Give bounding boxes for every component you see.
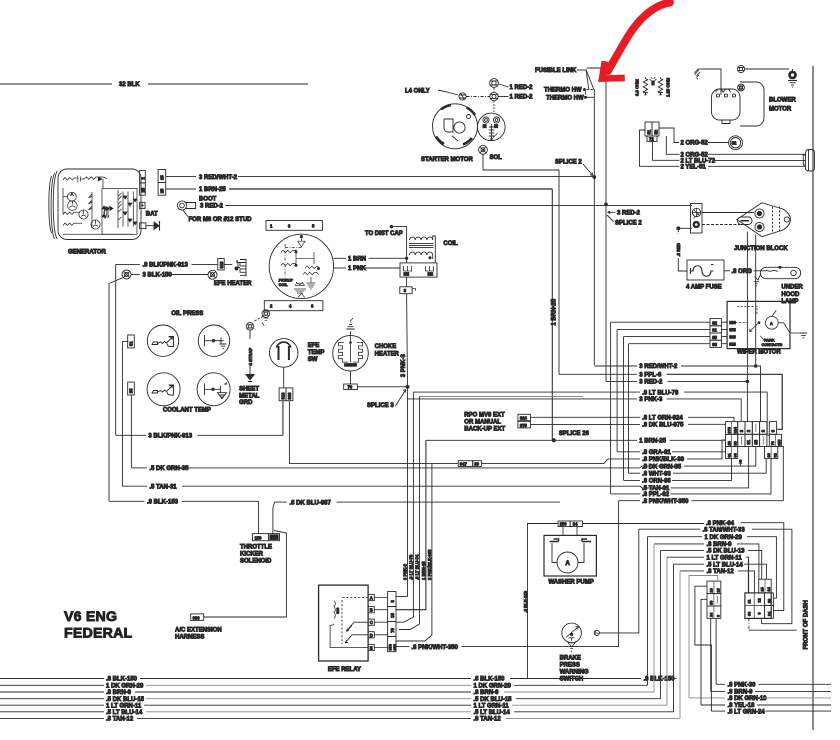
svg-text:3 RED-2: 3 RED-2 — [639, 380, 663, 386]
ground (wiper) — [800, 333, 807, 338]
svg-text:BOOT: BOOT — [199, 197, 217, 203]
wire 3 PNK-3 into relay — [396, 596, 408, 598]
svg-text:GRD: GRD — [239, 400, 253, 406]
wire 3 BLK-150 — [131, 273, 208, 279]
wire 3 RED-2 (mid) — [606, 380, 749, 386]
wire .5 TAN-31 (mid) — [640, 447, 749, 493]
generator internals — [63, 176, 137, 235]
svg-text:METAL: METAL — [239, 393, 260, 399]
node splice 2 dot — [593, 176, 596, 179]
svg-text:.8 ORN-96: .8 ORN-96 — [642, 479, 671, 485]
blower resistor 3.0 OHM — [635, 78, 648, 97]
wire .5 DK GRN-35 — [131, 466, 640, 472]
svg-text:96: 96 — [733, 453, 737, 457]
wire GRA-91 vertical — [616, 329, 618, 451]
svg-text:COIL: COIL — [279, 283, 289, 287]
bottom bus wire 1 LT GRN-11 — [0, 557, 667, 709]
svg-text:.8 LT BLU-78: .8 LT BLU-78 — [408, 554, 413, 580]
svg-text:COOLANT TEMP: COOLANT TEMP — [163, 408, 211, 414]
svg-text:HOOD: HOOD — [781, 292, 800, 298]
wiper connector 93 — [629, 340, 728, 347]
wire dash from nut to SOL — [493, 101, 495, 112]
svg-text:FUSIBLE LINK: FUSIBLE LINK — [535, 68, 577, 74]
wire .8 ORN-96 (mid) — [624, 459, 732, 485]
wire bolt1 to bolt2 — [745, 68, 789, 70]
svg-text:FEDERAL: FEDERAL — [64, 626, 133, 642]
connector grid A — [707, 581, 721, 618]
wire .8 PPL-92 (mid) — [611, 459, 771, 499]
svg-text:RPO MV9 EXT: RPO MV9 EXT — [464, 413, 505, 419]
connector circle 52 — [729, 136, 743, 150]
wire 1 BRN-25 into relay — [396, 440, 426, 609]
connector 76 — [344, 371, 408, 390]
svg-text:.8 PNK/WHT-350: .8 PNK/WHT-350 — [642, 499, 689, 505]
wire relay pins to connector — [374, 598, 387, 648]
wire .8 PNK/WHT-350 (relay) — [396, 501, 619, 651]
bottom bus wire .5 DK BLU-15 — [0, 550, 661, 703]
brake switch — [562, 623, 582, 652]
svg-text:STARTER MOTOR: STARTER MOTOR — [421, 157, 473, 163]
svg-text:95: 95 — [712, 335, 717, 340]
svg-text:.8 BLK/PNK-913: .8 BLK/PNK-913 — [143, 263, 189, 269]
svg-text:.5 LT BLU-14: .5 LT BLU-14 — [474, 710, 511, 716]
label 3 RED-2 — [200, 204, 692, 210]
svg-text:SHEET: SHEET — [239, 387, 259, 393]
wire .8 PNK-94 — [583, 521, 784, 611]
blower resistor 1.25 OHM — [658, 77, 670, 97]
svg-text:2: 2 — [761, 429, 766, 432]
ignition coil windings — [409, 236, 435, 263]
svg-text:.8 PNK-30: .8 PNK-30 — [728, 683, 757, 689]
wire fusible link feed down (3 RED-2 vertical) — [605, 68, 607, 381]
connector 1 3 5 — [266, 221, 323, 231]
wire .8 RED tap — [678, 227, 692, 229]
svg-text:92: 92 — [712, 320, 717, 325]
brake switch terminal — [594, 529, 639, 635]
svg-text:11: 11 — [748, 599, 752, 603]
svg-text:3 RED-2: 3 RED-2 — [617, 210, 641, 216]
generator body — [49, 169, 141, 240]
svg-text:903: 903 — [287, 392, 292, 400]
svg-text:.8 PNK/BLK-39: .8 PNK/BLK-39 — [642, 457, 685, 463]
svg-text:.8 DK BLU-987: .8 DK BLU-987 — [290, 500, 332, 506]
svg-text:D: D — [370, 633, 373, 638]
svg-text:3 PNK-3: 3 PNK-3 — [639, 397, 663, 403]
wire dashed bolt-bolt (4 strap) — [254, 317, 263, 322]
wire .8 PNK/WHT-350 (mid) — [619, 447, 784, 505]
wire .8 BLK-153 — [109, 500, 259, 534]
svg-text:B: B — [370, 608, 373, 613]
starter motor — [433, 104, 478, 149]
junction block kite — [737, 203, 791, 237]
svg-text:.5 TAN-31: .5 TAN-31 — [149, 484, 177, 490]
bolt blower 1 — [737, 65, 744, 72]
svg-text:35: 35 — [129, 388, 134, 393]
wire .5 LT GRN-24 — [695, 586, 831, 715]
svg-text:SWITCH: SWITCH — [560, 677, 584, 683]
under hood lamp — [754, 266, 801, 286]
svg-text:BACK-UP EXT: BACK-UP EXT — [464, 427, 505, 433]
bottom bus wire .5 LT BLU-14 — [0, 564, 674, 716]
svg-text:91: 91 — [727, 453, 731, 457]
relay pin D — [368, 632, 374, 638]
svg-text:.8 TAN/WHT-33: .8 TAN/WHT-33 — [703, 527, 746, 533]
svg-text:OR MANUAL: OR MANUAL — [464, 420, 501, 426]
wire 913 down — [282, 401, 284, 436]
wire .8 PNK-30 — [716, 683, 831, 689]
svg-text:6: 6 — [311, 304, 314, 309]
svg-text:WARNING: WARNING — [560, 670, 589, 676]
svg-text:3 PPL-6: 3 PPL-6 — [639, 373, 662, 379]
EFE relay box — [319, 585, 369, 661]
solenoid SOL — [478, 113, 506, 141]
svg-text:A/C EXTENSION: A/C EXTENSION — [175, 627, 222, 633]
label BLOWER MOTOR — [769, 98, 796, 113]
svg-text:3 BLK/PNK-913: 3 BLK/PNK-913 — [148, 434, 192, 440]
svg-text:947: 947 — [460, 462, 468, 467]
thermal limiter symbol — [650, 77, 657, 85]
wire .8 GRA-91 (mid) — [617, 450, 725, 456]
svg-text:HEATER: HEATER — [375, 351, 400, 357]
label SHEET METAL GRD — [239, 387, 260, 407]
wire ground to motor — [701, 69, 721, 95]
wire 1 BRN-25 — [166, 187, 553, 193]
svg-text:76: 76 — [348, 385, 353, 390]
connector 2 4 6 — [264, 301, 323, 311]
wire plate to kite upper — [702, 212, 754, 214]
svg-text:.8 BRN-9: .8 BRN-9 — [106, 690, 132, 696]
svg-text:4 AMP FUSE: 4 AMP FUSE — [686, 285, 722, 291]
svg-text:1 BRN-25: 1 BRN-25 — [199, 187, 226, 193]
svg-text:.8 TAN-12: .8 TAN-12 — [707, 569, 735, 575]
wiper connector 91 — [617, 326, 727, 333]
svg-text:OIL PRESS: OIL PRESS — [171, 311, 203, 317]
ground (blower circuit) — [694, 69, 701, 79]
annotation red arrow — [602, 3, 670, 79]
svg-text:BAT: BAT — [146, 211, 158, 217]
svg-text:WASHER PUMP: WASHER PUMP — [548, 579, 593, 585]
svg-text:.8 ORG: .8 ORG — [732, 269, 753, 275]
svg-text:THERMO HW: THERMO HW — [546, 96, 584, 102]
connector 51/52 — [645, 122, 659, 136]
connector 3 (coil feed) — [400, 277, 416, 294]
wire SOL to PPL vertical — [483, 154, 559, 374]
wire BLK-153 vertical left — [109, 278, 123, 502]
wire .8 LT BLU-78 into relay — [396, 392, 413, 622]
svg-text:24: 24 — [710, 612, 714, 617]
svg-text:3: 3 — [739, 429, 744, 432]
svg-text:.8 TAN-12: .8 TAN-12 — [106, 717, 134, 723]
wire ORN-96 vertical — [623, 337, 625, 481]
EFE temp switch — [269, 339, 298, 368]
svg-text:150: 150 — [255, 536, 263, 541]
svg-text:1 DK GRN-29: 1 DK GRN-29 — [106, 684, 144, 690]
wires below grid A — [711, 618, 716, 691]
wire .8 YEL-18 — [701, 599, 831, 709]
bulkhead connector row2 — [726, 434, 782, 446]
svg-text:.5 DK BLU-15: .5 DK BLU-15 — [474, 697, 513, 703]
bottom bus wire .8 BLK-150 — [0, 677, 677, 683]
svg-text:91: 91 — [712, 328, 717, 333]
blower motor bracket — [740, 82, 764, 126]
svg-text:3: 3 — [390, 600, 395, 603]
svg-text:1.25 OHM: 1.25 OHM — [666, 77, 671, 97]
svg-text:1 BRN: 1 BRN — [348, 257, 366, 263]
svg-text:1 BRN-25: 1 BRN-25 — [639, 439, 666, 445]
label THERMO HW (2) — [546, 91, 594, 102]
blower motor housing — [712, 89, 741, 124]
svg-text:.8 GRA-91: .8 GRA-91 — [642, 450, 671, 456]
svg-text:.5 LT BLU-14: .5 LT BLU-14 — [106, 710, 143, 716]
wire .5 TAN-31 — [122, 484, 640, 490]
svg-text:.8 YEL-18: .8 YEL-18 — [728, 703, 756, 709]
svg-text:32 BLK: 32 BLK — [119, 82, 140, 88]
wire 3 PNK/BLK-903 into relay — [396, 530, 432, 641]
svg-text:PARK: PARK — [764, 338, 775, 342]
svg-text:.5 LT BLU-14: .5 LT BLU-14 — [707, 562, 744, 568]
label V6 ENG FEDERAL — [64, 609, 133, 642]
wire dashed to second nut — [467, 96, 490, 98]
relay pin C — [368, 619, 374, 625]
wiper motor box — [727, 301, 800, 348]
front of dash line — [812, 66, 814, 730]
wire .8 ORG — [724, 269, 762, 275]
svg-text:93: 93 — [712, 342, 717, 347]
svg-text:EFE: EFE — [308, 343, 320, 349]
generator BAT tab — [140, 202, 158, 217]
wire 1 BRN-25 vertical — [552, 189, 558, 440]
wire 1 BRN — [334, 233, 408, 263]
wire 1 LT GRN-11 — [667, 555, 749, 593]
svg-text:TO DIST CAP: TO DIST CAP — [365, 231, 403, 237]
svg-text:.8 PNK/WHT-350: .8 PNK/WHT-350 — [412, 645, 459, 651]
svg-text:1 BRN-25: 1 BRN-25 — [552, 298, 558, 325]
connector grid B main — [745, 593, 773, 619]
connector 150/94 washer — [558, 521, 582, 536]
svg-text:.8 BLK-150: .8 BLK-150 — [106, 677, 138, 683]
label 3 RED-2 (splice2) — [608, 210, 641, 216]
svg-text:51: 51 — [647, 129, 652, 134]
svg-text:33: 33 — [748, 612, 752, 616]
svg-text:39: 39 — [474, 462, 479, 467]
svg-text:KICKER: KICKER — [240, 552, 264, 558]
terminal SOL bottom — [479, 145, 488, 154]
distributor (HEI) — [269, 234, 333, 298]
svg-text:.8 BRN-9: .8 BRN-9 — [728, 690, 754, 696]
svg-text:.8 BRN-9: .8 BRN-9 — [707, 542, 733, 548]
gauge coolant gauge — [197, 373, 230, 406]
svg-text:975: 975 — [520, 423, 528, 428]
svg-text:EFE HEATER: EFE HEATER — [214, 281, 252, 287]
svg-text:.8 WHT-93: .8 WHT-93 — [642, 471, 671, 477]
label RPO MV9 EXT OR MANUAL BACK-UP EXT — [464, 413, 505, 433]
svg-text:350: 350 — [777, 439, 781, 445]
label 1 RED-2 (lower) — [498, 94, 533, 100]
svg-text:19: 19 — [716, 588, 720, 592]
label SPLICE 3 — [367, 390, 406, 410]
wire .5 DK BLU-13 — [661, 549, 762, 580]
svg-text:3: 3 — [404, 288, 407, 293]
harness connector 25/25 — [158, 170, 166, 196]
connector 986 A/C extension — [191, 531, 287, 621]
svg-text:.8 TAN-12: .8 TAN-12 — [474, 717, 502, 723]
wire .8 PNK/BLK-39 — [481, 440, 725, 463]
wire 3 RED/WHT-2 (mid) — [594, 364, 760, 421]
svg-text:2 ORG-52: 2 ORG-52 — [681, 152, 709, 158]
wire 3 PNK-3 (mid) — [408, 397, 742, 422]
wire 35 down — [130, 395, 132, 468]
svg-text:SOL: SOL — [490, 155, 503, 161]
svg-text:L4 ONLY: L4 ONLY — [405, 89, 430, 95]
label 1 RED-2 (upper) — [499, 84, 533, 91]
svg-text:FRONT OF DASH: FRONT OF DASH — [804, 600, 810, 649]
wire .8 WHT-93 (mid) — [629, 459, 767, 478]
wire .5 LT BLU-14 — [674, 562, 767, 579]
gauge coolant sender — [147, 373, 180, 406]
svg-text:31: 31 — [129, 341, 134, 346]
generator connector tab 25 — [140, 183, 146, 195]
svg-text:975: 975 — [727, 427, 731, 433]
svg-text:3: 3 — [288, 223, 291, 228]
svg-text:THROTTLE: THROTTLE — [240, 545, 272, 551]
svg-text:HARNESS: HARNESS — [175, 635, 204, 641]
svg-text:2 ORG-52: 2 ORG-52 — [681, 141, 709, 147]
bulkhead connector row1 — [726, 422, 777, 435]
svg-text:WIPER MOTOR: WIPER MOTOR — [737, 350, 781, 356]
bolt blower 2 with ground — [788, 69, 797, 87]
label FUSIBLE LINK — [535, 68, 586, 74]
connector 975 — [518, 421, 531, 428]
svg-text:16: 16 — [710, 588, 714, 592]
svg-text:78: 78 — [390, 627, 395, 632]
svg-text:.8 BLK-150: .8 BLK-150 — [644, 677, 676, 683]
svg-text:3 PNK-3: 3 PNK-3 — [402, 563, 407, 580]
svg-text:A: A — [565, 560, 570, 567]
wire 1 BRN-25 (mid) — [426, 439, 726, 445]
wire 3 RED/WHT-2 — [166, 175, 595, 181]
svg-text:.8 RED: .8 RED — [676, 243, 681, 257]
svg-text:1 LT GRN-11: 1 LT GRN-11 — [474, 703, 510, 709]
svg-text:1 PNK: 1 PNK — [348, 266, 366, 272]
svg-text:.5 DK GRN-35: .5 DK GRN-35 — [149, 466, 189, 472]
svg-text:30: 30 — [710, 601, 714, 605]
bottom bus wire .8 TAN-12 — [0, 571, 680, 723]
svg-text:.8 BLK-153: .8 BLK-153 — [147, 500, 179, 506]
gauge oil press sender — [147, 325, 178, 356]
wire EFE sw to 913/903 — [283, 367, 285, 388]
fuse 4 AMP — [687, 260, 724, 280]
svg-text:V6 ENG: V6 ENG — [64, 609, 117, 625]
connector 35 — [128, 382, 135, 395]
label TO DIST CAP — [365, 225, 407, 237]
svg-text:1 LT GRN-11: 1 LT GRN-11 — [106, 703, 142, 709]
svg-text:9: 9 — [757, 612, 761, 614]
wire .8 DK GRN-19 — [689, 576, 831, 703]
svg-text:UNDER: UNDER — [781, 285, 803, 291]
svg-text:25: 25 — [159, 188, 164, 193]
wiper connector 92 — [611, 319, 728, 326]
wire .8 DK BLU-975 — [530, 423, 725, 429]
wire .8 BLK/PNK-913 — [116, 263, 218, 269]
wire 2 YEL-51 — [640, 130, 806, 171]
svg-text:SOLENOID: SOLENOID — [240, 559, 272, 565]
svg-text:25: 25 — [727, 441, 731, 445]
label SPLICE 2 (second) — [605, 203, 643, 226]
svg-text:JUNCTION BLOCK: JUNCTION BLOCK — [734, 246, 788, 252]
svg-text:.8 LT BLU-74: .8 LT BLU-74 — [414, 554, 419, 580]
washer pump box — [544, 535, 596, 576]
svg-text:BRAKE: BRAKE — [560, 656, 581, 662]
svg-text:72: 72 — [649, 137, 654, 142]
label A/C EXTENSION HARNESS — [175, 627, 222, 640]
svg-text:2 YEL-51: 2 YEL-51 — [681, 165, 707, 171]
wire .8 LT BLU-74 (mid) — [420, 395, 584, 397]
ring terminal 3 RED-2 — [177, 201, 195, 210]
svg-text:EFE RELAY: EFE RELAY — [328, 667, 361, 673]
svg-text:.5 DK GRN-35: .5 DK GRN-35 — [642, 464, 682, 470]
junction block plate — [691, 204, 703, 234]
svg-text:.8 BLK-150: .8 BLK-150 — [474, 677, 506, 683]
wire 3 PPL-6 (mid) — [559, 373, 782, 430]
svg-text:1 RED-2: 1 RED-2 — [510, 85, 534, 91]
choke heater ground — [346, 318, 354, 335]
connector 913 (efe heater) — [218, 259, 224, 271]
svg-text:MOTOR: MOTOR — [769, 107, 792, 113]
label CHOKE HEATER — [375, 344, 400, 357]
relay pin A — [368, 594, 374, 600]
svg-text:COIL: COIL — [443, 241, 458, 247]
svg-text:35: 35 — [753, 439, 758, 444]
wire .8 LT BLU-74 into relay — [399, 396, 420, 629]
wire .5 DK GRN-35 (mid,right) — [640, 447, 756, 468]
svg-text:.5 DK BLU-15: .5 DK BLU-15 — [106, 697, 145, 703]
svg-text:3 RED/WHT-2: 3 RED/WHT-2 — [199, 175, 238, 181]
wire .8 TAN-12 — [680, 569, 754, 593]
ring terminal 3 BLK-150 left — [122, 270, 131, 279]
label UNDER HOOD LAMP — [781, 285, 803, 305]
svg-text:.8 BRN-9: .8 BRN-9 — [474, 690, 500, 696]
svg-text:GENERATOR: GENERATOR — [68, 249, 106, 255]
svg-text:1 DK GRN-29: 1 DK GRN-29 — [705, 535, 743, 541]
generator output terminal — [140, 221, 160, 231]
svg-text:924: 924 — [733, 426, 737, 433]
bottom bus wire .8 BRN-9 — [0, 544, 654, 696]
svg-text:3 BLK-150: 3 BLK-150 — [143, 273, 173, 279]
node arrow below grid — [739, 460, 742, 467]
wire 1 DK GRN-29 (upper) — [648, 535, 777, 598]
svg-text:SPLICE 26: SPLICE 26 — [559, 431, 590, 437]
svg-text:93: 93 — [767, 453, 771, 457]
svg-text:986: 986 — [193, 615, 201, 620]
svg-text:1 RED-2: 1 RED-2 — [510, 94, 534, 100]
svg-text:CHOKE: CHOKE — [375, 344, 397, 350]
wire 3 BLK/PNK-913 (gauge row) — [116, 401, 283, 440]
label THERMO HW (1) — [544, 88, 594, 94]
relay pin E — [368, 644, 374, 650]
svg-text:.8 DK BLU-975: .8 DK BLU-975 — [642, 423, 684, 429]
wire .8 LT BLU-78 (mid) — [413, 390, 769, 435]
svg-text:.8 DK GRN-19: .8 DK GRN-19 — [728, 696, 768, 702]
svg-text:3.0 OHM: 3.0 OHM — [635, 79, 640, 96]
wire 2 ORG-52 to circle 52 — [659, 128, 729, 147]
svg-text:4 STRAP: 4 STRAP — [248, 348, 253, 366]
ring terminal 3 BLK-150 right — [208, 270, 217, 279]
svg-text:C: C — [370, 620, 373, 625]
bolt terminal (4 strap top) — [246, 323, 254, 331]
wire 3 PNK/BLK-903 branch — [431, 463, 433, 530]
generator connector tab 2 — [140, 171, 146, 183]
label SPLICE 26 — [552, 431, 589, 442]
